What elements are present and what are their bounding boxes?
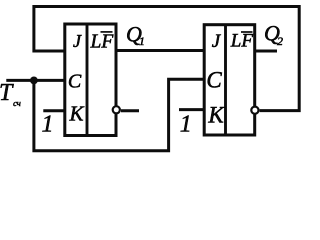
svg-text:1: 1: [180, 111, 192, 137]
svg-text:сч: сч: [13, 98, 21, 108]
svg-text:K: K: [207, 102, 225, 127]
svg-text:J: J: [73, 31, 82, 51]
svg-text:LF: LF: [230, 30, 254, 51]
svg-text:T: T: [0, 80, 14, 106]
svg-text:C: C: [206, 67, 222, 92]
svg-text:C: C: [68, 71, 82, 93]
svg-text:K: K: [68, 102, 84, 126]
svg-text:1: 1: [139, 34, 145, 48]
svg-text:1: 1: [42, 112, 54, 138]
svg-text:2: 2: [277, 34, 283, 48]
svg-text:LF: LF: [90, 31, 115, 52]
